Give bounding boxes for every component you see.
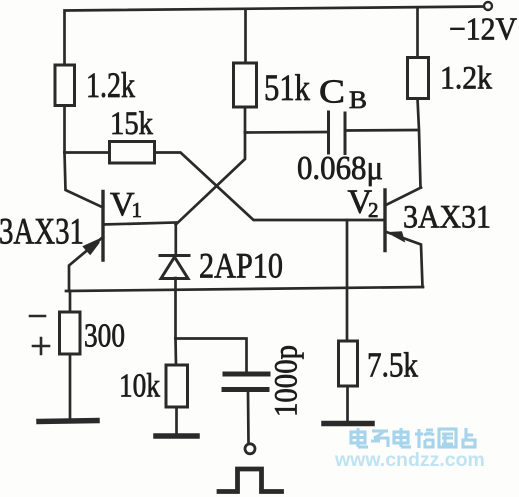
resistor R5 7.5k	[339, 341, 358, 386]
watermark char zi	[371, 431, 388, 447]
svg-text:−12V: −12V	[449, 11, 517, 47]
wire CB right plate to right 1.2k node	[345, 129, 419, 132]
watermark char tu	[439, 429, 456, 447]
svg-text:0.068μ: 0.068μ	[297, 150, 383, 187]
capacitor 1000p top plate	[225, 372, 268, 377]
wire 15k right to X crossing to V2 base	[155, 153, 386, 221]
watermark line 1: stylized CJK glyph blocks	[351, 428, 475, 448]
watermark char lu	[415, 429, 434, 448]
watermark char dian	[351, 428, 368, 447]
transistor V2 base bar	[383, 190, 386, 251]
wire 10k bottom lead	[175, 407, 178, 433]
svg-text:2AP10: 2AP10	[199, 246, 283, 286]
transistor V1 emitter with arrow	[69, 237, 103, 291]
svg-text:1: 1	[132, 198, 143, 222]
svg-text:300: 300	[84, 318, 125, 355]
svg-text:3AX31: 3AX31	[403, 200, 491, 236]
svg-text:3AX31: 3AX31	[0, 212, 84, 253]
svg-text:10k: 10k	[119, 368, 160, 405]
resistor R7 10k	[166, 365, 188, 407]
svg-text:1000p: 1000p	[269, 345, 305, 417]
ground under 300	[39, 421, 97, 422]
resistor R6 300	[60, 312, 81, 354]
svg-text:1.2k: 1.2k	[440, 61, 492, 97]
resistor R2 15k	[110, 142, 155, 164]
capacitor CB left plate	[327, 112, 330, 153]
wire emitter bus	[66, 287, 423, 291]
wire 10k node branch	[174, 339, 177, 366]
diode VD 2AP10 cathode bar	[160, 254, 189, 257]
transistor V2 emitter with arrow	[385, 232, 423, 288]
wire node B to CB left plate	[245, 131, 329, 134]
transistor V1 emitter arrowhead	[82, 239, 99, 256]
transistor V1 base wire	[103, 223, 176, 225]
diode VD 2AP10 triangle	[161, 257, 188, 279]
transistor V2 collector diagonal	[385, 188, 421, 206]
resistor R1 1.2k left	[55, 65, 75, 106]
pulse waveform symbol	[219, 469, 282, 492]
ground under 10k	[156, 433, 197, 439]
wire right 1.2k top lead to rail	[416, 8, 419, 58]
wire top supply rail	[65, 7, 484, 65]
wire node A down to V1 collector	[65, 153, 104, 208]
terminal -12V	[484, 2, 492, 10]
wire node A to 15k	[65, 151, 110, 154]
wire R4 bottom through CB node down to V2 collector	[418, 99, 421, 188]
svg-text:C: C	[319, 74, 345, 111]
transistor V1 base bar	[101, 192, 104, 261]
wire 7.5k bottom lead	[346, 386, 349, 421]
diode VD 2AP10 cathode lead from V1 base node	[174, 223, 177, 255]
wire 1000p to trigger terminal	[247, 392, 250, 443]
terminal trigger input	[245, 444, 255, 454]
transistor V2 emitter arrowhead	[389, 231, 406, 242]
resistor R3 51k	[234, 63, 257, 107]
svg-text:B: B	[349, 87, 367, 114]
capacitor 1000p bottom plate	[224, 387, 267, 392]
watermark char zhan	[463, 428, 475, 447]
svg-text:2: 2	[368, 198, 379, 222]
capacitor CB right plate	[344, 113, 347, 154]
resistor R4 1.2k right	[408, 58, 429, 99]
watermark char dian2	[394, 428, 411, 447]
wire node B diagonal to V1 base node	[176, 133, 245, 225]
diode VD 2AP10 anode lead down to 10k node	[174, 278, 177, 339]
polarity mark minus	[30, 315, 45, 318]
wire 51k top lead to rail	[244, 9, 247, 63]
wire V2 base node down to 7.5k	[346, 220, 349, 341]
wire 10k node to 1000p capacitor	[176, 339, 247, 372]
svg-text:www.cndzz.com: www.cndzz.com	[334, 449, 485, 471]
svg-text:1.2k: 1.2k	[86, 65, 135, 105]
svg-text:7.5k: 7.5k	[367, 347, 419, 385]
svg-text:15k: 15k	[110, 106, 153, 142]
polarity mark plus	[33, 338, 49, 354]
ground under 7.5k	[324, 421, 372, 427]
wire R1 bottom to node A	[63, 106, 66, 153]
wire emitter bus to 300 resistor	[69, 291, 72, 312]
wire 300 bottom lead	[69, 354, 72, 418]
wire 51k bottom to node B	[244, 107, 247, 133]
svg-text:51k: 51k	[264, 68, 310, 109]
